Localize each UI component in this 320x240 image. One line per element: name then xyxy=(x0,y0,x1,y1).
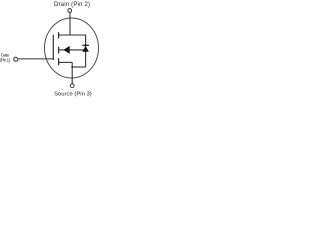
svg-text:(Pin 1): (Pin 1) xyxy=(0,57,10,62)
drain terminal (pin 2) xyxy=(68,9,72,13)
svg-text:Source (Pin 3): Source (Pin 3) xyxy=(54,91,92,97)
wire source bar xyxy=(58,61,72,63)
gate terminal (pin 1) xyxy=(14,57,18,61)
junction dot source/diode xyxy=(71,66,73,68)
transistor envelope circle xyxy=(45,18,99,78)
gate plate xyxy=(52,35,54,60)
body diode vertical wire xyxy=(85,35,87,67)
channel segment body xyxy=(58,47,60,54)
source terminal (pin 3) xyxy=(70,84,74,88)
wire source lead xyxy=(71,62,73,83)
wire diode bottom connection xyxy=(72,66,86,68)
body diode cathode bar xyxy=(82,44,89,46)
body diode triangle xyxy=(82,46,89,52)
wire drain lead xyxy=(69,12,71,35)
channel segment source xyxy=(58,58,60,65)
wire gate lead xyxy=(18,58,54,60)
wire body line xyxy=(58,49,86,51)
channel segment drain xyxy=(58,32,60,38)
svg-text:Drain (Pin 2): Drain (Pin 2) xyxy=(54,2,90,8)
wire drain bar xyxy=(58,34,86,36)
body arrow (N-channel) xyxy=(63,46,69,54)
